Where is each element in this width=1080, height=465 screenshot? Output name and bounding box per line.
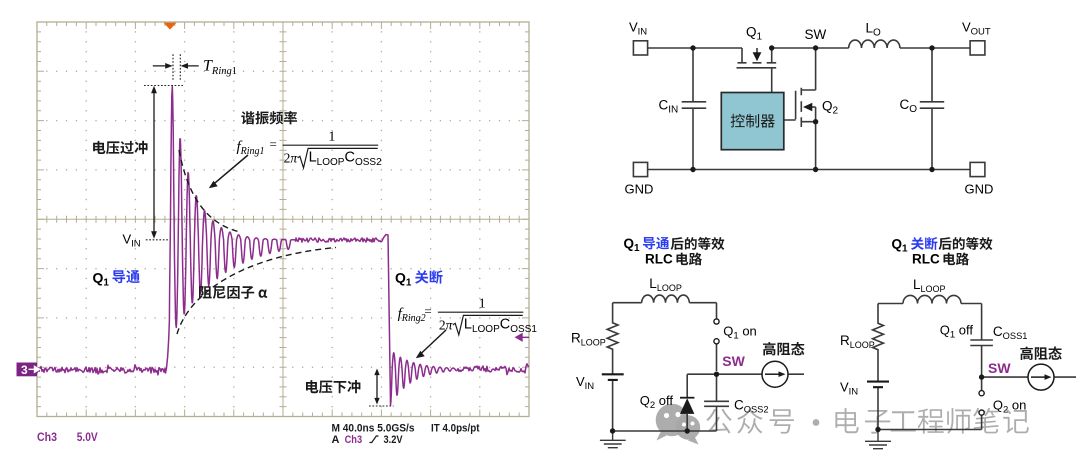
svg-text:2π: 2π <box>439 318 454 333</box>
svg-text:LLOOP: LLOOP <box>649 276 682 293</box>
wire switch to rail <box>981 377 983 429</box>
bottom rail <box>878 429 982 431</box>
svg-text:SW: SW <box>722 353 745 369</box>
current source (high-Z) <box>762 361 788 387</box>
svg-text:2π: 2π <box>284 151 299 166</box>
svg-text:TRing1: TRing1 <box>203 58 237 78</box>
peak level dotted line <box>144 85 183 87</box>
svg-text:Q1: Q1 <box>395 269 412 288</box>
svg-text:Q1 off: Q1 off <box>940 323 974 341</box>
svg-text:SW: SW <box>988 360 1011 376</box>
svg-text:A: A <box>332 434 340 446</box>
svg-text:Q1: Q1 <box>93 269 110 288</box>
svg-text:LLOOP: LLOOP <box>913 277 946 294</box>
label 阻尼因子α <box>199 286 267 299</box>
upper envelope dashed <box>179 150 238 232</box>
transistor Q1 (high-side PMOS) <box>737 48 777 93</box>
svg-text:LLOOPCOSS2: LLOOPCOSS2 <box>309 150 382 168</box>
current source (high-Z) <box>1028 364 1054 390</box>
svg-text:CIN: CIN <box>659 98 679 116</box>
capacitor C_OSS1 to SW <box>970 340 993 375</box>
svg-text:Q1: Q1 <box>624 236 641 254</box>
switch Q1 on <box>714 319 719 324</box>
svg-text:VIN: VIN <box>629 20 647 38</box>
svg-text:VOUT: VOUT <box>962 20 991 38</box>
formula1 arrow <box>214 155 249 184</box>
label 电压过冲 <box>93 141 147 154</box>
svg-text:1: 1 <box>328 130 335 145</box>
svg-text:VIN: VIN <box>123 232 141 250</box>
T_Ring1 dotted verticals <box>173 54 180 80</box>
svg-text:RLC: RLC <box>645 252 673 267</box>
svg-text:COSS2: COSS2 <box>734 398 769 415</box>
svg-text:Q1 on: Q1 on <box>723 323 757 341</box>
inductor L_LOOP <box>903 295 961 303</box>
svg-text:RLC: RLC <box>912 252 940 267</box>
inductor Lo <box>849 40 900 48</box>
svg-text:=: = <box>270 136 277 151</box>
capacitor C_OSS2 <box>704 344 729 431</box>
capacitor Cin <box>682 48 707 170</box>
svg-text:fRing2: fRing2 <box>398 306 426 324</box>
watermark logo <box>656 404 701 445</box>
svg-text:RLOOP: RLOOP <box>571 331 606 348</box>
T_Ring1 arrows <box>153 65 199 67</box>
svg-text:3: 3 <box>21 363 28 377</box>
svg-text:Ch3: Ch3 <box>345 434 363 446</box>
svg-text:IT 4.0ps/pt: IT 4.0ps/pt <box>431 423 480 435</box>
wire bottom rail <box>613 430 717 432</box>
svg-text:COSS1: COSS1 <box>993 324 1028 341</box>
svg-text:M 40.0ns 5.0GS/s: M 40.0ns 5.0GS/s <box>332 423 415 435</box>
svg-text:RLOOP: RLOOP <box>840 333 875 350</box>
undershoot dotted line <box>369 405 394 407</box>
diode Q2 (body diode) <box>680 398 694 414</box>
ground <box>600 431 626 448</box>
undershoot double arrow <box>376 374 378 401</box>
Q1 body arrow <box>753 52 762 61</box>
svg-text:3.2V: 3.2V <box>384 434 404 446</box>
wire SW to current source <box>982 376 1076 378</box>
trigger level arrow (purple, right edge) <box>516 334 529 341</box>
Vin level dotted line <box>146 239 169 241</box>
label 控制器 <box>731 114 775 128</box>
svg-text:LO: LO <box>866 21 882 39</box>
capacitor Co <box>920 48 944 170</box>
waveform trace Ch3 <box>37 86 529 405</box>
junction dots <box>610 372 719 434</box>
label 谐振频率 <box>241 111 297 125</box>
wire top left <box>613 303 717 319</box>
wire top rail <box>648 47 970 49</box>
resistor R_LOOP <box>873 304 884 382</box>
wire bottom rail <box>648 169 970 171</box>
watermark text <box>706 409 731 434</box>
overshoot double arrow <box>153 92 155 233</box>
terminal Vin <box>633 41 647 55</box>
formula2 arrow <box>421 330 447 354</box>
trigger position marker (orange) <box>164 23 177 30</box>
terminal GND right <box>970 162 985 176</box>
svg-text:1: 1 <box>479 297 486 312</box>
label 高阻态 1 <box>763 342 805 356</box>
junction dots <box>875 374 984 432</box>
svg-text:Ch3: Ch3 <box>37 432 57 444</box>
svg-text:Q2: Q2 <box>822 99 839 117</box>
ground <box>865 430 891 449</box>
lower envelope dashed <box>177 248 336 335</box>
switch Q2 on <box>979 391 984 396</box>
label 电压下冲 <box>306 380 360 393</box>
svg-text:Q1: Q1 <box>746 25 763 43</box>
Q2 body arrow <box>803 103 812 112</box>
svg-text:Q1: Q1 <box>892 237 909 255</box>
svg-text:LLOOPCOSS1: LLOOPCOSS1 <box>464 317 537 335</box>
svg-text:=: = <box>424 304 431 319</box>
svg-text:fRing1: fRing1 <box>237 139 265 157</box>
svg-text:SW: SW <box>805 27 827 42</box>
battery V_IN <box>877 387 879 430</box>
junction dots <box>690 45 934 172</box>
resistor R_LOOP <box>607 303 618 375</box>
terminal Vout <box>970 41 985 55</box>
wire SW to diode branch <box>687 374 716 431</box>
oscilloscope grid <box>37 22 529 417</box>
svg-text:GND: GND <box>625 182 654 197</box>
transistor Q2 (low-side NMOS) <box>784 48 816 170</box>
terminal GND left <box>633 162 647 176</box>
battery V_IN <box>612 380 614 431</box>
svg-text:CO: CO <box>900 97 918 115</box>
wire SW to current source <box>717 373 805 375</box>
controller box <box>721 93 784 150</box>
wires top <box>878 304 982 341</box>
svg-text:VIN: VIN <box>840 380 858 398</box>
inductor L_LOOP <box>642 295 690 303</box>
svg-text:5.0V: 5.0V <box>77 432 98 444</box>
label 高阻态 2 <box>1020 347 1062 361</box>
svg-text:GND: GND <box>965 182 994 197</box>
channel 3 marker <box>17 363 38 377</box>
svg-text:VIN: VIN <box>576 374 594 392</box>
